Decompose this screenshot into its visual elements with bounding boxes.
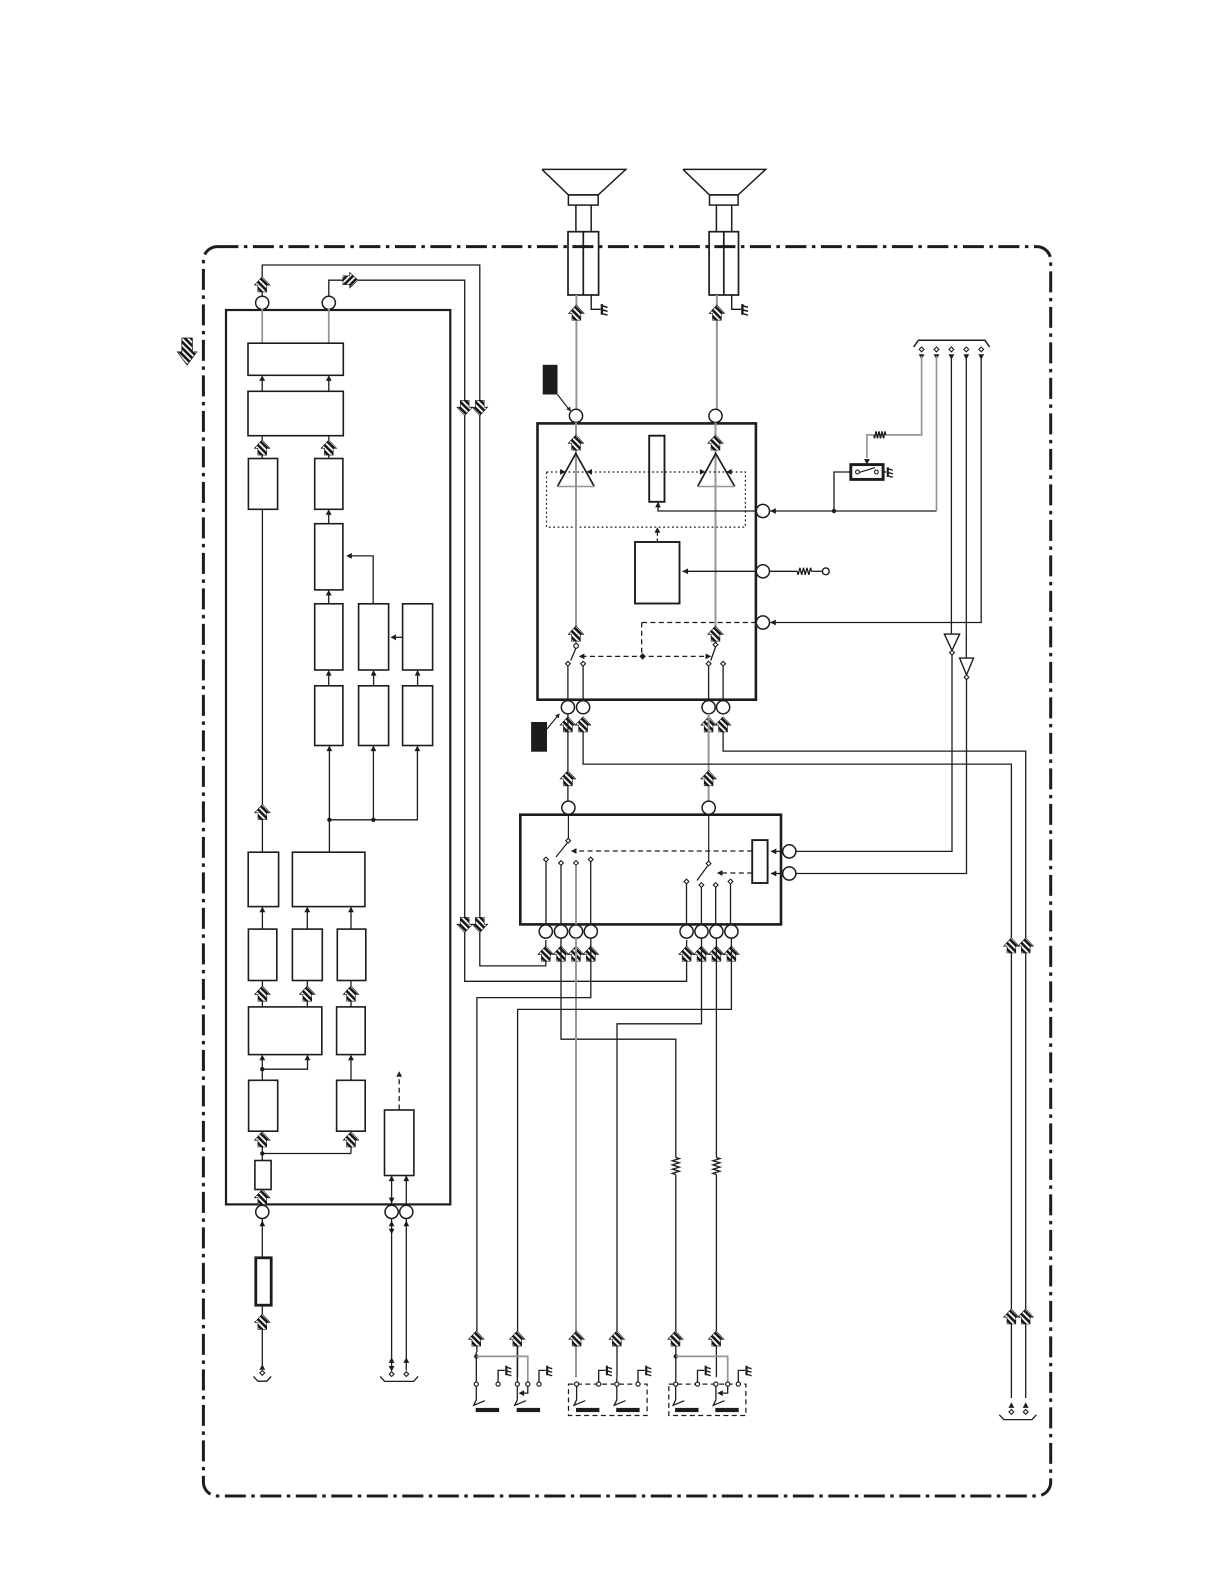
speaker SP1 gray wire — [575, 295, 577, 409]
jack group3 dashed box — [669, 1384, 746, 1415]
jack group2 dashed box — [569, 1384, 648, 1415]
switch SB — [684, 861, 733, 887]
hatched arrow jack line D — [609, 1331, 625, 1346]
wire box6b top to box5 right side with arrow — [346, 553, 373, 604]
jack J2 ground pin — [537, 1366, 552, 1386]
amp IC top pin L — [569, 409, 582, 422]
block box9 (wide) — [292, 852, 365, 906]
hatched arrow below sel pin 4 — [583, 946, 599, 961]
jack J2 tip — [515, 1346, 540, 1412]
wire pin1 to volume bottom — [655, 502, 936, 513]
hatched arrow amp2 output — [708, 626, 724, 641]
arrow into right pin3 — [770, 620, 776, 626]
resistor on line F — [713, 1158, 720, 1378]
wire pin2 to connector — [389, 1219, 395, 1372]
block box10c — [337, 929, 366, 980]
jack J3 ground pin — [597, 1366, 612, 1386]
SB contact wires — [687, 884, 731, 925]
net4 cont: inverter2 to selector ctrl pin2 — [796, 680, 967, 874]
wire sel pin8 to jack line B — [518, 938, 732, 1377]
hatched arrow hp L mid — [1004, 938, 1020, 953]
hatched arrow below sel pin 7 — [709, 946, 725, 961]
left block bottom pin 1 — [256, 1205, 269, 1218]
block box1 (top wide) — [248, 343, 343, 375]
wire sel pin3 to jack line C (gray) — [575, 938, 577, 1377]
hatched arrow (down) on bus A upper — [472, 400, 488, 415]
selector top pin L — [562, 801, 575, 814]
block box13a — [249, 1080, 278, 1131]
hatched arrow hp L low — [1004, 1309, 1020, 1324]
selector top pin R — [702, 801, 715, 814]
amp IC bottom pin 1 — [561, 701, 574, 714]
net2: pin2 down to amp pin1 (gray) — [936, 356, 938, 511]
wire amp out R to selector (gray) — [708, 714, 710, 801]
hatched arrow below pin2 — [575, 717, 591, 732]
wire pin B to box1 (gray) — [328, 309, 330, 344]
block box7c — [403, 686, 433, 746]
amp IC top pin R — [709, 409, 722, 422]
feed rail from box9 up to box7a/b/c — [327, 746, 421, 853]
connector bracket (left single) — [253, 1376, 271, 1381]
net5: pin5 to amp mute pin3 — [770, 356, 981, 623]
arrow ctrl pin1 to block — [771, 849, 783, 855]
hatched arrow amp2 input — [708, 435, 724, 450]
switch SW1 (amp1 out) — [565, 644, 585, 667]
hatched arrow below box14 — [254, 1189, 270, 1204]
selector bottom pin 3 — [569, 925, 582, 938]
arrow box7c to box6c — [415, 670, 421, 686]
hatched arrow below box15 — [254, 1305, 270, 1368]
hatched arrow on pin A wire — [254, 277, 270, 292]
block box10b — [292, 929, 322, 980]
wire right pin2 to control block — [683, 568, 757, 574]
speaker SP2 connector (2 cells) — [709, 232, 738, 295]
amp2 output gray wire — [715, 487, 717, 643]
amp2 input gray wire — [715, 423, 717, 487]
speaker SP2 gray wire — [716, 295, 718, 409]
resistor on line E — [672, 1158, 679, 1353]
arrow box10c to box9 — [348, 907, 354, 930]
jack J2 switch pin — [519, 1382, 530, 1396]
hatched arrow below box2 left — [254, 436, 270, 459]
speaker SP2 horn — [683, 169, 766, 195]
hatched arrow jack line B — [510, 1331, 526, 1346]
mute switch box (bold) — [851, 465, 883, 480]
block box8a — [248, 852, 278, 906]
mute switch ground — [883, 467, 893, 477]
wire sel pin6 to jack line D — [617, 938, 702, 1377]
connector pins (left dual) — [389, 1372, 409, 1377]
block box14 (small) — [255, 1161, 271, 1190]
net3 cont: inverter1 to selector ctrl pin1 — [796, 655, 952, 851]
dashed ctrl line to switch A — [571, 848, 752, 854]
selector bottom pin 7 — [710, 925, 723, 938]
external resistor on pin2 — [770, 568, 823, 575]
wire: left block pin A to right bus (down to selector pin 1) — [262, 265, 546, 966]
box12 wire L (bidirectional) — [389, 1176, 395, 1205]
inverter INV1 — [944, 634, 959, 655]
hatched arrow amp1 output — [568, 626, 584, 641]
block box6b — [359, 604, 389, 670]
arrow box6a to box5 — [326, 590, 332, 604]
arrow box10b to box9 — [304, 907, 310, 930]
arrow box7b to box6b — [371, 670, 377, 686]
enclosure dash-dot border — [203, 247, 1050, 1496]
jack J6 switch pin — [717, 1382, 730, 1396]
long wire box3 down to box8a — [261, 509, 263, 852]
block box7a — [315, 686, 343, 746]
hatched arrow below box2 right — [321, 436, 337, 459]
rail below box11a from box13a — [259, 1055, 310, 1081]
selector bottom pin 4 — [584, 925, 597, 938]
control connector bracket (top right) — [914, 340, 990, 347]
hatched arrow jack line C — [569, 1331, 585, 1346]
hatched arrow (right) on pin B wire — [343, 272, 358, 288]
SW1 contact wires — [568, 666, 583, 700]
jack J6 switch feed (gray) — [676, 1356, 728, 1382]
arrow box6c to box6b — [390, 634, 402, 640]
speaker SP2 magnet — [710, 195, 739, 205]
pin A circle — [256, 296, 269, 309]
speaker SP1 horn — [542, 169, 626, 195]
jack J6 ground pin — [736, 1366, 751, 1386]
block box5 — [315, 524, 343, 590]
switch SA stem — [567, 814, 569, 838]
arrow box5 to box4 — [326, 509, 332, 523]
jack J3 tip — [574, 1382, 599, 1412]
jack J5 ground pin — [695, 1366, 710, 1386]
left block bottom pin 2 — [385, 1205, 398, 1218]
wire: left block pin B to right bus (down to selector pin 5) — [329, 280, 687, 981]
block box12 (tall, bottom right) — [385, 1110, 414, 1176]
hatched arrow (down) on bus B upper — [457, 400, 473, 415]
block box3 — [248, 459, 277, 510]
switch SB stem — [708, 814, 710, 861]
amp IC bottom pin 2 — [577, 701, 590, 714]
jack J1 tip — [474, 1352, 499, 1412]
hatched arrow on box3-box8a wire — [255, 804, 271, 819]
off-board hatched arrow (left margin) — [177, 338, 197, 365]
hatched arrow below pin4 — [715, 717, 731, 732]
hatched arrow amp out L — [560, 771, 576, 786]
hp connector arrows+pins — [1009, 1402, 1029, 1414]
hatched arrow (down) on bus B lower — [457, 917, 473, 932]
hatched arrow hp R low — [1018, 1309, 1034, 1324]
selector bottom pin 6 — [695, 925, 708, 938]
callout label (black) for top pin L — [543, 365, 573, 413]
hatched arrow below sel pin 1 — [538, 946, 554, 961]
wire pin A to box1 (gray) — [261, 309, 263, 344]
arrow box2 to box1 (right) — [326, 375, 332, 391]
hatched arrow below sel pin 8 — [724, 946, 740, 961]
dotted-line arrow into A2 right — [726, 469, 732, 475]
amp IC right pin1 — [756, 504, 769, 517]
control block — [635, 542, 680, 604]
speaker SP1 neck — [576, 205, 591, 232]
arrow into right pin1 — [770, 508, 776, 514]
left block bottom pin 3 — [400, 1205, 413, 1218]
selector ctrl block — [752, 840, 767, 883]
hatched arrow (down) on bus A lower — [472, 917, 488, 932]
hatched arrow jack line E — [668, 1331, 684, 1346]
switch SA — [544, 838, 594, 865]
dashed mute control net — [579, 623, 756, 660]
open terminal on pin2 resistor — [822, 568, 829, 575]
hatched arrow below box10a — [255, 981, 271, 1007]
inverter INV2 — [960, 658, 974, 680]
block box6c — [403, 604, 433, 670]
hatched arrow on SP2 wire — [709, 305, 725, 320]
dashed ctrl line to switch B — [717, 870, 752, 876]
speaker SP1 ground lead — [591, 295, 607, 315]
hatched arrow below pin1 — [560, 717, 576, 732]
hatched arrow below box10c — [343, 981, 359, 1007]
hatched arrow below pin3 — [701, 717, 717, 732]
arrow box10a to box8a — [260, 907, 266, 930]
dotted-line arrow into A1 right — [586, 469, 592, 475]
jack J1 ground pin — [496, 1366, 511, 1386]
arrow ctrl pin2 to block — [771, 871, 783, 877]
wire amp out L to selector — [567, 714, 569, 801]
dashed arrow control to feedback box — [655, 527, 661, 542]
block box4 — [315, 459, 343, 510]
net3: pin3 to inverter1 — [950, 356, 952, 634]
hatched arrow below box10b — [300, 981, 316, 1007]
block box11b — [337, 1007, 366, 1055]
feedback dotted box — [547, 472, 746, 527]
amp IC bottom pin 3 — [702, 701, 715, 714]
jack J2 switch feed (gray) — [476, 1356, 528, 1382]
block box15 (thick border) — [256, 1258, 271, 1305]
jack J4 tip — [614, 1377, 639, 1412]
connector arrow and pin (left single) — [259, 1364, 265, 1375]
control connector arrows — [919, 354, 984, 360]
dotted-line arrow into A2 left — [700, 469, 706, 475]
amp1 input gray wire — [575, 423, 577, 487]
dashed arrow up from box12 — [396, 1071, 402, 1109]
control connector pins — [919, 347, 983, 352]
net4: pin4 to inverter2 — [965, 356, 967, 658]
arrow box13b to box11b — [348, 1055, 354, 1081]
hatched arrow below sel pin 3 — [568, 946, 584, 961]
jack J4 ground pin — [636, 1366, 651, 1386]
net1: pin1 via resistor to mute switch (gray) — [864, 356, 922, 465]
block box7b — [359, 686, 389, 746]
op-amp A1 (left power amp) — [557, 454, 594, 487]
wire sel pin4 to jack line A — [477, 938, 591, 1352]
mute switch contacts — [856, 468, 879, 474]
hp connector bracket — [999, 1415, 1036, 1420]
selector bottom pin 2 — [554, 925, 567, 938]
arrow box2 to box1 (left) — [259, 375, 265, 391]
headphone feed R wire — [723, 732, 1026, 1398]
wire pin3 to connector — [403, 1219, 409, 1371]
mute switch to pin1 net — [834, 472, 851, 511]
wire sel pin7 to jack line F — [715, 938, 717, 1157]
hatched arrow below sel pin 2 — [553, 946, 569, 961]
power amp IC outline — [538, 423, 756, 699]
speaker SP1 connector (2 cells) — [568, 232, 599, 295]
hatched arrow below sel pin 6 — [694, 946, 710, 961]
block box13b — [337, 1080, 366, 1131]
SW2 contact wires — [709, 666, 724, 700]
block box2 (second wide) — [248, 391, 343, 435]
hatched arrow below box13b — [343, 1131, 359, 1153]
selector bottom pin 8 — [725, 925, 738, 938]
left PCB block outline — [226, 310, 450, 1204]
hatched arrow below box13a — [254, 1131, 270, 1160]
selector bottom pin 1 — [539, 925, 552, 938]
amp IC right pin3 — [756, 616, 769, 629]
arrow box7a to box6a — [326, 670, 332, 686]
speaker SP2 neck — [716, 205, 731, 232]
SA contact wires — [546, 862, 591, 925]
amp IC bottom pin 4 — [717, 701, 730, 714]
speaker SP1 magnet — [568, 195, 598, 205]
hatched arrow below sel pin 5 — [679, 946, 695, 961]
pin B circle — [322, 296, 335, 309]
speaker SP2 ground lead — [732, 295, 748, 315]
block box10a — [248, 929, 276, 980]
selector ctrl pin1 — [783, 845, 796, 858]
volume block (vertical) — [649, 436, 664, 502]
switch SW2 (amp2 out) — [706, 642, 725, 666]
amp IC right pin2 — [756, 565, 769, 578]
selector bottom pin 5 — [680, 925, 693, 938]
connector bracket (left dual) — [380, 1376, 418, 1381]
rail box13b bottom to column A — [260, 1151, 351, 1155]
selector ctrl pin2 — [783, 867, 796, 880]
block box6a — [315, 604, 343, 670]
input selector IC outline — [520, 815, 781, 925]
jack J5 tip — [673, 1352, 698, 1412]
box12 wire R — [403, 1176, 409, 1205]
dotted-line arrow into A1 left — [560, 469, 566, 475]
hatched arrow jack line F — [708, 1331, 724, 1346]
hatched arrow amp out R — [701, 771, 717, 786]
jack J6 tip — [713, 1382, 738, 1412]
block box11a (wide) — [249, 1007, 322, 1055]
hatched arrow on SP1 wire — [569, 305, 585, 320]
wire pin1 to box15 — [259, 1219, 265, 1258]
callout label (black) for bottom pin 1 — [531, 712, 561, 752]
hatched arrow jack line A — [469, 1331, 485, 1346]
amp1 output gray wire — [575, 487, 577, 644]
hatched arrow hp R mid — [1018, 938, 1034, 953]
op-amp A2 (right power amp) — [698, 454, 735, 487]
headphone feed L wire — [583, 732, 1011, 1398]
wire sel pin2 to jack line E — [561, 938, 676, 1157]
hatched arrow amp1 input — [568, 435, 584, 450]
